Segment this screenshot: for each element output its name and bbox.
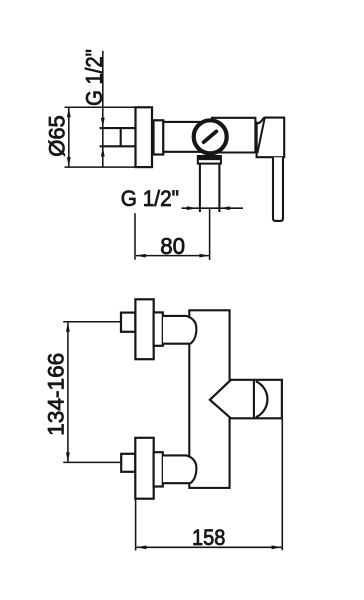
wire: 134-166 top extension line xyxy=(63,321,121,323)
component: handle cap (side view) xyxy=(257,118,285,158)
node: 134-166 arrowhead down xyxy=(66,452,70,462)
svg-text:G 1/2": G 1/2" xyxy=(121,187,179,212)
component: body column (front view) xyxy=(189,310,229,488)
component: top eccentric horn xyxy=(163,316,196,344)
component: valve housing (right of circle) xyxy=(211,118,255,153)
component: outlet pipe left edge xyxy=(199,164,201,212)
component: top inlet nut xyxy=(121,313,135,332)
node: 134-166 arrowhead up xyxy=(66,322,70,332)
svg-text:G 1/2": G 1/2" xyxy=(81,49,108,106)
wire: 80 left extension line xyxy=(134,213,136,260)
wire: 80 dimension line xyxy=(136,255,209,257)
component: body tube (left of valve circle) xyxy=(163,122,230,152)
svg-text:134-166: 134-166 xyxy=(44,353,69,436)
component: wall flange (side view) xyxy=(136,107,153,167)
wire: 134-166 bottom extension line xyxy=(63,461,121,463)
wire: Ø65 bottom extension line xyxy=(65,166,136,168)
component: bottom eccentric collar xyxy=(154,452,163,486)
wire: thread top line xyxy=(100,127,136,129)
wire: 80 right extension line xyxy=(209,208,211,260)
wire: G1/2 mid dimension line left xyxy=(182,207,244,209)
node: 158 arrowhead left xyxy=(137,545,147,549)
component: outlet collar under circle xyxy=(198,156,221,164)
node: 158 arrowhead right xyxy=(272,545,282,549)
component: handle cone (front view) xyxy=(210,380,282,419)
component: handle grip (side view) xyxy=(273,157,283,221)
node: 80 arrowhead right xyxy=(199,254,209,258)
component: top wall flange (front) xyxy=(135,299,153,359)
wire: handle divider line xyxy=(253,380,255,419)
node: Ø65 arrowhead up xyxy=(67,107,71,117)
component: valve slot xyxy=(204,131,217,142)
node: arrowhead right toward pipe xyxy=(187,206,197,210)
node: arrowhead down at nipple top xyxy=(101,118,105,128)
node: arrowhead left toward pipe xyxy=(220,206,230,210)
node: arrowhead up at nipple bottom xyxy=(101,147,105,157)
wire: handle dome arc xyxy=(256,381,268,417)
wire: handle lever diagonal xyxy=(257,118,264,153)
wire: 158 left extension line xyxy=(135,499,137,551)
component: bottom inlet nut xyxy=(121,454,135,472)
wire: Ø65 top extension line xyxy=(65,106,136,108)
svg-text:80: 80 xyxy=(160,233,185,259)
component: bottom wall flange (front) xyxy=(135,438,153,499)
wire: nut left edge xyxy=(120,127,122,147)
component: outlet pipe right edge xyxy=(218,164,220,212)
wire: collar top thick band xyxy=(198,157,221,160)
component: bottom eccentric horn xyxy=(163,455,196,483)
wire: thread bottom line xyxy=(100,145,136,147)
wire: 134-166 dimension line xyxy=(67,322,69,463)
component: top eccentric collar xyxy=(154,312,163,345)
wire: Ø65 dimension line xyxy=(68,107,70,167)
wire: G1/2 top leader/dimension line xyxy=(102,51,104,168)
wire: 158 dimension line xyxy=(137,546,282,548)
wire: 158 right extension line xyxy=(281,418,283,550)
svg-text:158: 158 xyxy=(192,526,225,550)
svg-text:Ø65: Ø65 xyxy=(45,115,70,157)
node: Ø65 arrowhead down xyxy=(67,157,71,167)
node: 80 arrowhead left xyxy=(136,254,146,258)
component: valve circle xyxy=(194,120,227,153)
component: step collar between flange and body xyxy=(154,120,164,154)
